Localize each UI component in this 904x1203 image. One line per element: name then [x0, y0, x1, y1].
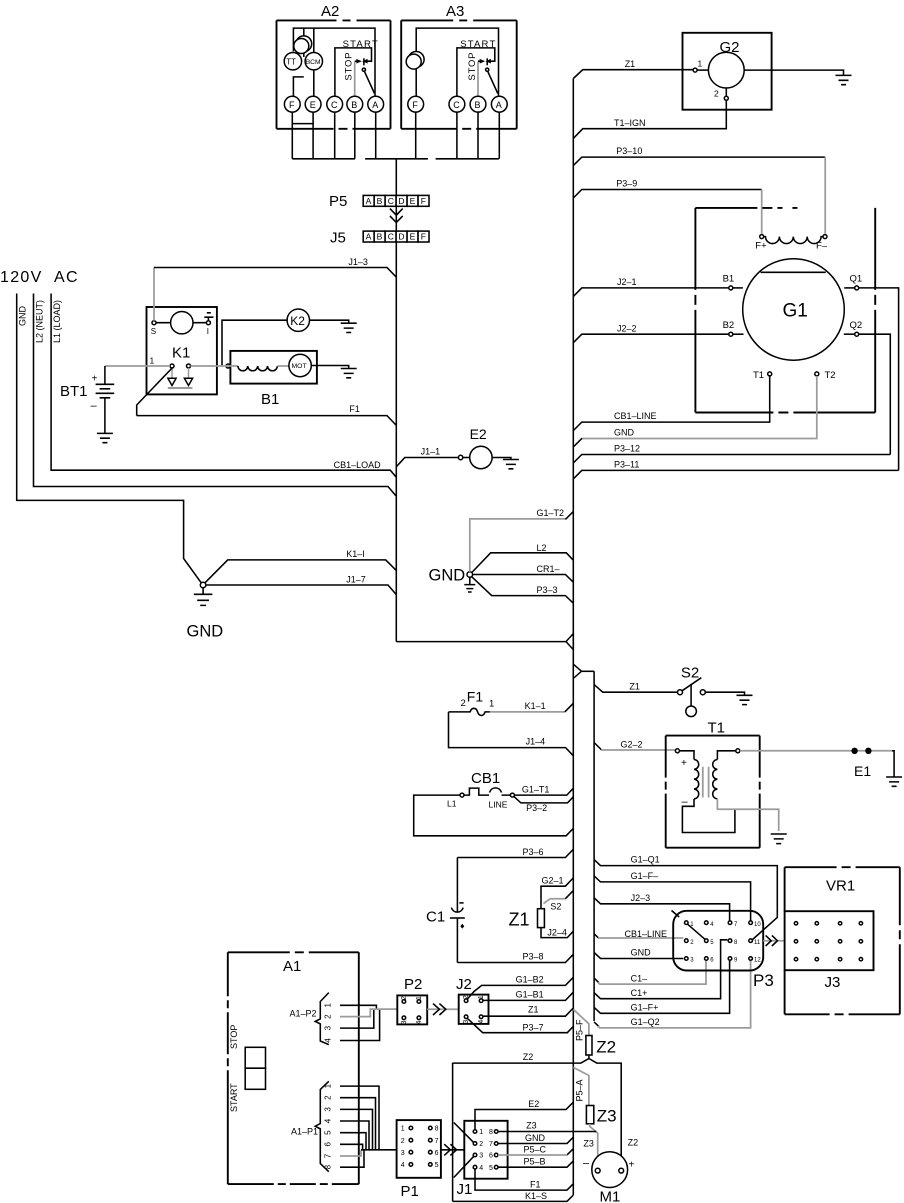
svg-text:6: 6 [435, 1150, 439, 1157]
wire P5-A (bus to Z3) [573, 1067, 589, 1105]
wire Z3 (J1 pin8 to Z3) [498, 1121, 596, 1132]
wire GND (J1 pin7 to bus) [498, 1133, 573, 1144]
svg-text:J2: J2 [456, 976, 472, 993]
terminal B (A2) [347, 96, 363, 112]
svg-text:A1: A1 [283, 958, 301, 975]
starter motor B1 [191, 351, 357, 408]
wire Z1 (J2 pin4 to bus) [483, 1004, 573, 1016]
svg-text:G2–1: G2–1 [542, 876, 564, 886]
wire G1-Q2 [594, 960, 751, 1028]
wire Z2 (long, to A1) [453, 1052, 581, 1063]
svg-text:Z1: Z1 [625, 59, 636, 69]
svg-text:2: 2 [324, 1095, 333, 1100]
svg-text:A: A [366, 232, 372, 242]
svg-text:T1: T1 [708, 720, 726, 737]
svg-text:6: 6 [324, 1142, 333, 1147]
connector mating arrows P1-J1 [441, 1144, 464, 1155]
svg-text:B: B [351, 100, 357, 110]
wire G2-2 (bus to T1) [594, 739, 675, 750]
svg-text:CB1: CB1 [471, 770, 500, 787]
wire GND (to P3 pin3) [594, 948, 683, 959]
svg-text:B1: B1 [723, 274, 735, 285]
connector mating arrows P2-J2 [427, 1004, 459, 1015]
svg-text:P5–A: P5–A [575, 1079, 585, 1101]
wire P5-C (J1 pin6 to bus) [498, 1145, 573, 1156]
relay K1 [147, 307, 217, 394]
connector J3 [785, 911, 874, 991]
terminal B (A3) [470, 96, 486, 112]
spark plug E1 [740, 748, 902, 787]
svg-text:2: 2 [401, 1138, 405, 1145]
svg-text:2: 2 [479, 1141, 483, 1148]
svg-text:G1–F–: G1–F– [631, 871, 659, 881]
svg-text:A: A [372, 100, 378, 110]
terminal A (A3) [491, 96, 507, 112]
svg-text:Z1: Z1 [509, 910, 530, 930]
generator G1 [743, 259, 845, 361]
svg-text:5: 5 [489, 1165, 493, 1172]
svg-text:2: 2 [714, 89, 719, 99]
svg-text:K2: K2 [290, 314, 305, 328]
wire Q2 to P3-12 riser [859, 334, 891, 454]
svg-text:+: + [92, 374, 98, 385]
capacitor C1 [426, 858, 465, 963]
connector P2 [397, 976, 427, 1024]
svg-text:3: 3 [401, 1150, 405, 1157]
terminal F (A2) [284, 96, 300, 112]
svg-text:6: 6 [489, 1153, 493, 1160]
wire Z2 / K1-S riser (J1 pins 2,3) [453, 1063, 474, 1202]
wire C1- [594, 960, 706, 984]
wire P5-F (bus to Z2) [573, 1009, 589, 1041]
svg-text:7: 7 [324, 1153, 333, 1158]
fuse F1 [449, 689, 495, 716]
wire J2-4 [541, 928, 573, 938]
wire P3-7 (J2 pin3 to bus) [467, 1018, 573, 1032]
svg-text:Z2: Z2 [628, 1138, 639, 1148]
wire Z2 junction below [580, 1055, 621, 1168]
wire T1-IGN [573, 100, 726, 138]
svg-text:B: B [475, 100, 481, 110]
wire G1-T1 [514, 784, 573, 795]
voltage regulator VR1 enclosure [785, 867, 900, 1014]
wire J1-4 [449, 712, 574, 756]
svg-text:E2: E2 [470, 426, 487, 442]
wire G1-T2 [470, 508, 574, 572]
svg-text:Z3: Z3 [583, 1139, 594, 1149]
wire J2-2 [573, 323, 729, 342]
svg-text:P3–9: P3–9 [616, 179, 637, 189]
wire P3-8 [457, 952, 573, 963]
svg-text:P5–B: P5–B [524, 1157, 546, 1167]
svg-text:1: 1 [324, 1083, 333, 1088]
svg-text:S: S [151, 327, 156, 336]
wire G1-Q1 [594, 855, 777, 940]
start/stop switch S (A3) [457, 39, 498, 96]
wire P3-6 [457, 847, 573, 858]
svg-text:Z3: Z3 [526, 1121, 537, 1131]
svg-text:J5: J5 [330, 230, 346, 247]
svg-text:C1–: C1– [631, 973, 648, 983]
svg-text:BT1: BT1 [60, 383, 88, 400]
main harness bus (right) [572, 79, 574, 1196]
ground node GND (left) [187, 582, 224, 640]
svg-text:L1 (LOAD): L1 (LOAD) [52, 300, 62, 343]
terminal B2 (G1) [723, 320, 744, 336]
wire CB1 L1 loop [414, 795, 574, 836]
svg-text:GND: GND [631, 948, 652, 958]
svg-text:5: 5 [435, 1162, 439, 1169]
svg-text:P3–10: P3–10 [616, 146, 642, 156]
svg-text:J1–7: J1–7 [346, 574, 366, 584]
svg-text:CB1–LINE: CB1–LINE [625, 929, 668, 939]
svg-text:7: 7 [435, 1138, 439, 1145]
svg-text:1: 1 [401, 1126, 405, 1133]
svg-text:120V AC: 120V AC [0, 269, 79, 286]
svg-text:K1–1: K1–1 [525, 701, 546, 711]
net GND (AC input) [17, 294, 202, 584]
terminal Q1 (G1) [844, 274, 862, 290]
svg-text:TT: TT [286, 58, 296, 67]
connector P5 [329, 193, 429, 210]
svg-text:G1–T2: G1–T2 [537, 508, 565, 518]
svg-text:3: 3 [401, 1020, 408, 1024]
svg-text:A1–P2: A1–P2 [290, 1009, 317, 1019]
motor M1 [583, 1152, 635, 1203]
svg-text:–: – [91, 400, 98, 412]
wire J2-1 [573, 277, 729, 296]
resistor Z1 [509, 909, 545, 930]
net L1 (LOAD) [51, 294, 396, 478]
svg-text:1: 1 [150, 356, 155, 366]
svg-text:C: C [388, 232, 394, 242]
svg-text:F: F [421, 232, 426, 242]
svg-text:E2: E2 [528, 1099, 539, 1109]
svg-text:B: B [377, 232, 383, 242]
svg-text:B2: B2 [723, 320, 735, 331]
svg-text:E: E [410, 232, 416, 242]
svg-text:D: D [398, 196, 404, 206]
svg-text:G2–2: G2–2 [621, 739, 643, 749]
A2 inner top wire [293, 28, 375, 96]
svg-text:4: 4 [324, 1038, 333, 1043]
terminal E (A2) [305, 96, 321, 112]
svg-text:2: 2 [324, 1014, 333, 1019]
svg-text:P3–6: P3–6 [523, 847, 544, 857]
svg-text:J2–2: J2–2 [617, 323, 637, 333]
svg-text:L1: L1 [447, 799, 457, 809]
switch S2 [678, 665, 753, 717]
svg-text:STOP: STOP [467, 52, 478, 81]
svg-text:F1: F1 [467, 689, 484, 705]
svg-text:START: START [229, 1083, 239, 1112]
svg-text:12: 12 [754, 958, 761, 964]
wires A2 terminals down [292, 112, 375, 159]
wire K1-I [205, 549, 397, 583]
wire F1 (to bus) [137, 404, 397, 425]
svg-text:J1: J1 [457, 1181, 473, 1198]
svg-text:GND: GND [429, 567, 466, 585]
svg-text:1: 1 [478, 995, 485, 999]
svg-text:C1: C1 [426, 909, 445, 926]
wire E2 (J1 pin1 to bus) [475, 1099, 573, 1130]
svg-text:P3–3: P3–3 [537, 585, 558, 595]
control box A3 [401, 3, 517, 129]
wire S2 (Z1 top to bus) [544, 891, 574, 912]
junction arrow into busR [566, 634, 573, 650]
svg-text:CR1–: CR1– [537, 564, 560, 574]
svg-text:Q2: Q2 [850, 320, 863, 331]
wire P3-12 [573, 444, 890, 463]
net L2 (NEUT) [34, 294, 397, 497]
svg-text:F+: F+ [755, 241, 767, 252]
svg-text:A3: A3 [446, 3, 464, 20]
svg-text:J1–4: J1–4 [526, 737, 546, 747]
svg-text:VR1: VR1 [826, 878, 855, 895]
svg-text:G1–F+: G1–F+ [631, 1003, 659, 1013]
relay coil K2 [222, 309, 357, 368]
svg-text:P3–2: P3–2 [526, 803, 547, 813]
svg-text:M1: M1 [600, 1189, 621, 1203]
svg-text:F–: F– [816, 241, 828, 252]
wire Z1 (bus to G2 pin1) [573, 59, 693, 79]
svg-text:C1+: C1+ [631, 988, 648, 998]
svg-text:3: 3 [324, 1025, 333, 1030]
indicator TT (A2) [284, 53, 301, 70]
terminal Q2 (G1) [844, 320, 862, 336]
svg-text:E: E [310, 100, 316, 110]
wire P3-9 [573, 179, 761, 234]
svg-text:F: F [412, 100, 418, 110]
harness A1-P1 [291, 1081, 379, 1171]
resistor Z2 [586, 1036, 616, 1057]
svg-text:B: B [377, 196, 383, 206]
wires A3 terminals down [416, 112, 500, 159]
lamp DS (A3) [406, 52, 424, 97]
svg-text:4: 4 [479, 1165, 483, 1172]
svg-text:F: F [289, 100, 295, 110]
svg-text:A: A [366, 196, 372, 206]
svg-text:T2: T2 [825, 370, 836, 381]
svg-text:P5: P5 [329, 193, 347, 210]
svg-text:1: 1 [698, 59, 703, 69]
svg-text:P3: P3 [753, 971, 774, 990]
harness A1-P2 [290, 993, 380, 1045]
svg-text:G1: G1 [783, 301, 808, 322]
wire F-E jog (A2) [292, 112, 313, 124]
terminal T2 (G1) [815, 370, 836, 381]
svg-text:F1: F1 [530, 1180, 541, 1190]
A3 inner top wire [416, 28, 498, 96]
connector J2 [456, 976, 489, 1024]
svg-text:STOP: STOP [344, 52, 355, 81]
svg-text:GND: GND [525, 1133, 546, 1143]
svg-text:J1–3: J1–3 [348, 257, 368, 267]
wire J1-3 (K1 S to bus) [154, 257, 396, 321]
svg-text:K1: K1 [172, 345, 190, 362]
harness bus (second) [593, 671, 595, 1021]
svg-text:8: 8 [324, 1164, 333, 1169]
wire K1 arm to F1 [137, 368, 173, 416]
svg-text:Z2: Z2 [596, 1038, 616, 1057]
svg-text:4: 4 [478, 1020, 485, 1024]
junction arrow busR to busS [573, 664, 594, 678]
svg-text:GND: GND [614, 428, 635, 438]
wire F1 (J1 pin4 to bus) [475, 1169, 573, 1190]
wire J1-1 to E2 [396, 447, 463, 467]
svg-text:3: 3 [324, 1107, 333, 1112]
terminal C (A3) [449, 96, 465, 112]
wire P3-10 [573, 146, 825, 234]
svg-text:P3–8: P3–8 [523, 952, 544, 962]
svg-text:J3: J3 [825, 974, 841, 991]
wire K1-S [453, 1191, 574, 1202]
wire J2-3 [594, 893, 730, 921]
svg-text:STOP: STOP [229, 1025, 239, 1049]
A1 STOP/START buttons [229, 1025, 266, 1112]
svg-text:P3–11: P3–11 [614, 460, 639, 470]
svg-text:BCM: BCM [306, 59, 321, 66]
svg-text:G1–Q2: G1–Q2 [631, 1017, 660, 1027]
svg-text:J1–1: J1–1 [421, 447, 441, 457]
wire CR1- [473, 564, 574, 582]
svg-text:A2: A2 [321, 3, 339, 20]
svg-text:J2–4: J2–4 [547, 928, 567, 938]
wire G1-F+ [594, 960, 730, 1013]
svg-text:P3–12: P3–12 [614, 444, 640, 454]
svg-text:8: 8 [489, 1129, 493, 1136]
svg-text:P2: P2 [404, 976, 422, 993]
svg-text:D: D [398, 232, 404, 242]
indicator BCM (A2) [305, 28, 322, 96]
svg-text:1: 1 [479, 1129, 483, 1136]
svg-text:1: 1 [489, 699, 494, 710]
svg-text:CB1–LOAD: CB1–LOAD [334, 460, 382, 470]
terminal A (A2) [368, 96, 384, 112]
wire Z3 to M1 [583, 1124, 638, 1168]
wire P3-11 [573, 460, 898, 479]
control box A2 [277, 3, 391, 129]
magneto G2 [683, 33, 852, 110]
svg-text:5: 5 [324, 1130, 333, 1135]
svg-text:G1–B2: G1–B2 [516, 975, 544, 985]
svg-text:+: + [629, 1160, 635, 1171]
svg-text:CB1–LINE: CB1–LINE [614, 411, 657, 421]
svg-text:Q1: Q1 [850, 274, 863, 285]
svg-text:2: 2 [461, 698, 466, 709]
connector P3 [672, 911, 774, 991]
wire P3-3 [472, 577, 574, 603]
svg-text:G1–B1: G1–B1 [516, 989, 544, 999]
lamp DS (A2) [293, 28, 311, 96]
connector mating arrows P3-J3 [763, 935, 784, 946]
svg-text:1: 1 [416, 996, 423, 1000]
svg-text:Z2: Z2 [523, 1052, 534, 1062]
svg-text:I: I [207, 327, 209, 336]
wire G1-B1 (J2 pin1 to bus) [483, 989, 573, 1000]
svg-text:10: 10 [754, 922, 761, 928]
terminal T1 (G1) [753, 370, 772, 381]
wire Q1 to P3-11 riser [859, 288, 899, 471]
svg-text:2: 2 [401, 996, 408, 1000]
svg-text:L2: L2 [537, 543, 547, 553]
svg-text:A1–P1: A1–P1 [291, 1127, 318, 1137]
svg-text:Z1: Z1 [528, 1004, 539, 1014]
svg-text:P5–C: P5–C [524, 1145, 547, 1155]
svg-text:GND: GND [187, 623, 224, 641]
svg-text:S2: S2 [681, 665, 699, 682]
resistor Z3 [586, 1106, 616, 1126]
svg-text:Z1: Z1 [629, 681, 640, 691]
wire CB1-LINE (to P3 pin2) [594, 929, 683, 939]
svg-text:LINE: LINE [489, 800, 508, 810]
wire A1-P2 to P2 [370, 1008, 398, 1010]
wire center drop to P5 [395, 159, 397, 642]
controller A1 enclosure [228, 952, 359, 1184]
connector P1 [397, 1120, 441, 1200]
svg-text:C: C [388, 196, 394, 206]
svg-text:GND: GND [18, 306, 28, 327]
svg-text:MOT: MOT [292, 363, 307, 370]
svg-text:11: 11 [754, 940, 761, 946]
svg-text:T1: T1 [753, 370, 764, 381]
svg-text:J2–1: J2–1 [617, 277, 637, 287]
battery BT1 [60, 366, 170, 443]
svg-text:Z3: Z3 [597, 1107, 617, 1126]
svg-text:P1: P1 [401, 1183, 419, 1200]
ignition transformer T1 [666, 720, 787, 848]
svg-text:B1: B1 [261, 391, 279, 408]
terminal C (A2) [327, 96, 343, 112]
svg-text:L2 (NEUT): L2 (NEUT) [35, 300, 45, 343]
lamp E2 [463, 426, 519, 469]
wire K1-1 [490, 701, 573, 712]
start/stop switch S (A2) [335, 39, 379, 96]
svg-text:G1–T1: G1–T1 [522, 784, 550, 794]
wire CB1-LINE (T1 of G1 to bus) [573, 376, 769, 431]
svg-text:3: 3 [479, 1153, 483, 1160]
generator G1 enclosure [695, 208, 875, 413]
field winding F+/F- (G1) [755, 235, 828, 252]
svg-text:P5–F: P5–F [575, 1019, 585, 1041]
svg-text:A: A [496, 100, 502, 110]
wire L2 (to gnd node) [472, 543, 574, 573]
wire busL to busR junction [396, 641, 565, 643]
wire G1-F- [594, 871, 751, 921]
svg-text:T1–IGN: T1–IGN [614, 118, 646, 128]
terminal B1 (G1) [723, 274, 743, 290]
svg-text:7: 7 [489, 1141, 493, 1148]
ground node GND (right) [429, 567, 476, 593]
wire J1-7 [206, 574, 396, 594]
svg-text:K1–I: K1–I [346, 549, 365, 559]
svg-text:4: 4 [401, 1162, 405, 1169]
svg-text:G1–Q1: G1–Q1 [631, 855, 660, 865]
wire A1-P1 to P1 [361, 1149, 397, 1151]
circuit breaker CB1 [447, 770, 514, 810]
svg-text:+: + [681, 758, 687, 769]
svg-text:E1: E1 [854, 763, 871, 779]
wire G1-B2 (J2 pin2 to bus) [467, 975, 573, 1000]
wire GND (T2 of G1 to bus) [573, 376, 817, 447]
connector mating arrows P5-J5 [390, 209, 403, 223]
svg-text:C: C [331, 100, 338, 110]
connector J1 [457, 1121, 508, 1198]
svg-text:8: 8 [435, 1126, 439, 1133]
wire G2-1 [541, 876, 573, 909]
terminal F (A3) [408, 96, 424, 112]
wire P3-2 [514, 797, 573, 814]
